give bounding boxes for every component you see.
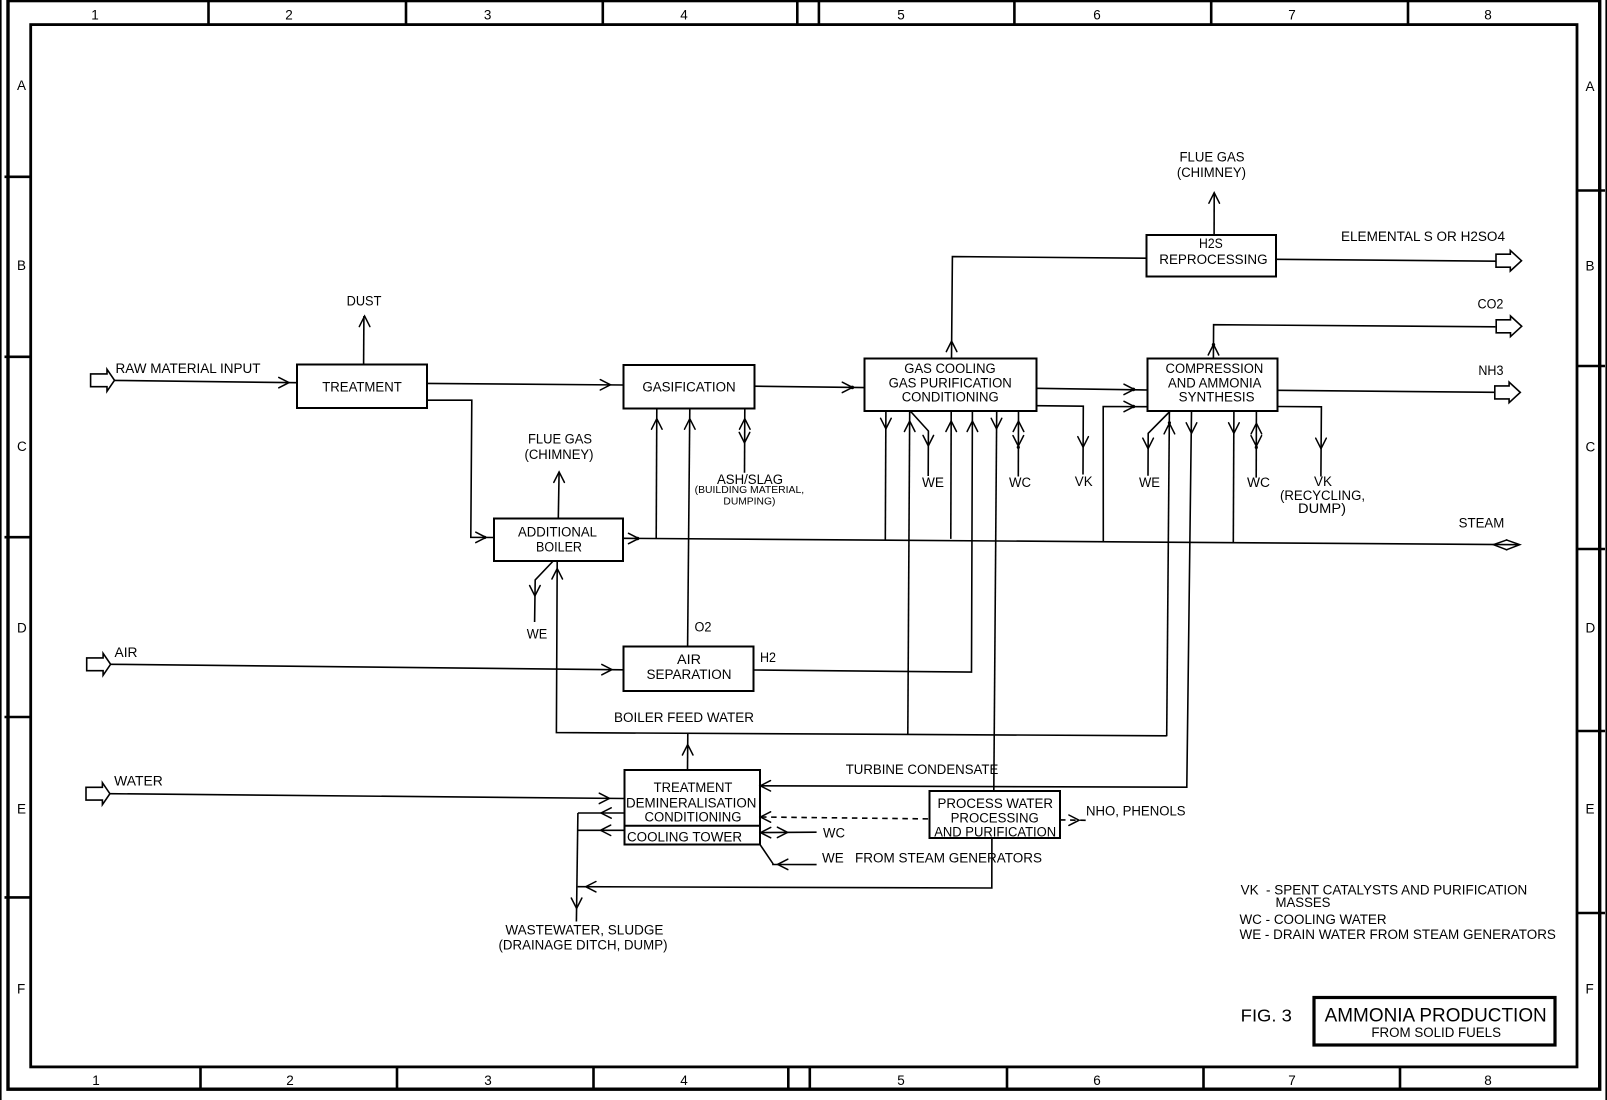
top band tick 1/2 [207, 2, 210, 24]
svg-text:WE: WE [1139, 475, 1160, 490]
box PROCESS WATER PROCESSING AND PURIFICATION [930, 791, 1061, 839]
svg-text:TREATMENT: TREATMENT [322, 379, 402, 394]
bottom band centre double tick [787, 1067, 790, 1089]
box H2S REPROCESSING [1147, 235, 1277, 277]
svg-text:F: F [1586, 981, 1594, 996]
svg-text:WASTEWATER, SLUDGE: WASTEWATER, SLUDGE [505, 923, 663, 938]
svg-text:F: F [17, 981, 25, 996]
wire COMPRESSION to NH3 output [1278, 390, 1495, 392]
box AIR SEPARATION [624, 647, 754, 692]
svg-text:AIR: AIR [115, 645, 138, 660]
svg-text:3: 3 [484, 1073, 492, 1088]
wire TREATMENT down to ADDITIONAL BOILER [427, 400, 494, 542]
svg-text:7: 7 [1288, 7, 1296, 22]
svg-text:WC: WC [1009, 475, 1031, 490]
svg-text:2: 2 [285, 7, 293, 22]
svg-text:5: 5 [897, 7, 905, 22]
svg-text:PROCESS WATER: PROCESS WATER [938, 796, 1054, 811]
wire COMPRESSION turbine condensate down to water treatment [760, 412, 1197, 792]
svg-text:(BUILDING MATERIAL,: (BUILDING MATERIAL, [695, 484, 805, 496]
right band tick D/E [1578, 730, 1605, 733]
wire WC exchange stub at cooling tower [760, 827, 817, 838]
input block arrow WATER [86, 774, 163, 805]
svg-text:TREATMENT: TREATMENT [654, 780, 733, 795]
svg-text:A: A [1586, 79, 1595, 94]
svg-text:1: 1 [92, 1073, 100, 1088]
svg-text:WATER: WATER [114, 774, 163, 789]
svg-text:WC: WC [1247, 475, 1270, 490]
wire GAS COOLING down to steam line [881, 411, 892, 540]
svg-text:WE: WE [527, 627, 548, 642]
svg-text:TURBINE CONDENSATE: TURBINE CONDENSATE [846, 762, 999, 777]
wire WE drain stub under COMPRESSION [1143, 412, 1170, 476]
wire COMPRESSION right down to VK stub [1278, 407, 1327, 477]
wire cooling tower left outlet [578, 825, 625, 835]
left band tick A/B [5, 176, 30, 179]
label VK (RECYCLING, DUMP) [1280, 474, 1365, 516]
svg-text:5: 5 [897, 1073, 905, 1088]
svg-text:NH3: NH3 [1478, 363, 1503, 378]
svg-text:SEPARATION: SEPARATION [647, 667, 732, 682]
page edge trim line right [1605, 0, 1607, 1100]
svg-text:AIR: AIR [677, 652, 701, 667]
svg-text:H2: H2 [760, 650, 776, 665]
svg-text:GAS COOLING: GAS COOLING [904, 361, 995, 376]
wire H2S REPROCESSING up to flue gas chimney [1209, 193, 1220, 235]
svg-text:FLUE GAS: FLUE GAS [528, 432, 592, 447]
input block arrow RAW MATERIAL INPUT [91, 361, 261, 391]
svg-text:B: B [1586, 259, 1595, 274]
svg-text:4: 4 [680, 7, 688, 22]
svg-text:WE: WE [922, 475, 944, 490]
svg-text:GASIFICATION: GASIFICATION [642, 379, 735, 394]
right band tick C/D [1578, 548, 1605, 551]
box GAS COOLING / GAS PURIFICATION / CONDITIONING [865, 359, 1037, 412]
title block AMMONIA PRODUCTION FROM SOLID FUELS [1314, 998, 1555, 1046]
wire TREATMENT to GASIFICATION [427, 380, 624, 390]
left band tick B/C [5, 355, 30, 358]
svg-text:AMMONIA PRODUCTION: AMMONIA PRODUCTION [1325, 1006, 1547, 1027]
svg-text:1: 1 [91, 7, 99, 22]
svg-text:D: D [1586, 620, 1596, 635]
wire water treatment upper left outlet [578, 808, 625, 818]
wire WC double arrow stub under GAS COOLING [1013, 411, 1024, 477]
svg-text:8: 8 [1484, 1073, 1492, 1088]
bottom band tick 6/7 [1202, 1067, 1205, 1089]
svg-text:DUMP): DUMP) [1298, 501, 1346, 516]
svg-text:E: E [17, 801, 26, 816]
svg-text:O2: O2 [695, 620, 712, 635]
box GASIFICATION [624, 365, 755, 409]
wire GASIFICATION to GAS COOLING [755, 382, 865, 392]
steam line double arrowhead [1493, 540, 1519, 550]
box TREATMENT DEMINERALISATION CONDITIONING / COOLING TOWER [625, 770, 761, 845]
svg-text:VK: VK [1314, 474, 1332, 489]
wire O2 from AIR SEPARATION up into GASIFICATION [685, 409, 696, 647]
box TREATMENT [297, 365, 427, 409]
wire WATER to water treatment [110, 793, 625, 803]
wire steam line up into GAS COOLING [946, 411, 957, 539]
wire WE drain stub under ADDITIONAL BOILER [530, 561, 554, 622]
svg-text:DEMINERALISATION: DEMINERALISATION [626, 795, 756, 810]
svg-text:E: E [1586, 801, 1595, 816]
svg-text:6: 6 [1093, 7, 1101, 22]
wire AIR to AIR SEPARATION [111, 664, 624, 675]
svg-text:4: 4 [680, 1073, 688, 1088]
bottom band tick 7/8 [1399, 1067, 1402, 1089]
svg-text:CO2: CO2 [1478, 297, 1504, 312]
svg-text:2: 2 [286, 1073, 294, 1088]
wire raw material input to TREATMENT [115, 377, 298, 387]
wire COMPRESSION up to CO2 output [1208, 325, 1495, 359]
svg-text:ADDITIONAL: ADDITIONAL [518, 525, 597, 540]
svg-text:(CHIMNEY): (CHIMNEY) [1177, 165, 1246, 180]
input block arrow AIR [87, 645, 138, 675]
svg-text:WE - DRAIN WATER FROM STEAM GE: WE - DRAIN WATER FROM STEAM GENERATORS [1240, 927, 1556, 942]
wire WE from steam generators into water treatment [760, 845, 816, 870]
svg-text:COMPRESSION: COMPRESSION [1166, 361, 1264, 376]
output block arrow elemental S [1496, 250, 1522, 271]
svg-text:CONDITIONING: CONDITIONING [645, 809, 742, 824]
wire H2S REPROCESSING to elemental S output [1276, 259, 1496, 261]
wire GAS COOLING right to VK stub [1037, 406, 1089, 475]
svg-text:ELEMENTAL S OR H2SO4: ELEMENTAL S OR H2SO4 [1341, 229, 1505, 244]
svg-text:DUST: DUST [347, 293, 382, 308]
svg-text:FROM SOLID FUELS: FROM SOLID FUELS [1371, 1025, 1501, 1040]
top band centre double tick [796, 2, 799, 24]
svg-text:H2S: H2S [1199, 236, 1223, 251]
output block arrow NH3 [1495, 382, 1521, 403]
top band tick 5/6 [1013, 2, 1016, 24]
svg-text:BOILER: BOILER [536, 540, 582, 555]
svg-text:6: 6 [1093, 1073, 1101, 1088]
svg-text:8: 8 [1484, 7, 1492, 22]
svg-text:3: 3 [484, 7, 492, 22]
svg-text:REPROCESSING: REPROCESSING [1159, 252, 1267, 267]
dashed wire PROCESS WATER to NHO, PHENOLS [1060, 815, 1086, 825]
wire water treatment up to boiler feed water line [682, 733, 693, 770]
svg-text:GAS PURIFICATION: GAS PURIFICATION [889, 375, 1012, 390]
label ASH/SLAG (BUILDING MATERIAL, DUMPING) [695, 472, 805, 508]
right band tick A/B [1578, 189, 1605, 192]
box COMPRESSION AND AMMONIA SYNTHESIS [1148, 359, 1278, 412]
svg-text:DUMPING): DUMPING) [723, 496, 775, 508]
svg-text:CONDITIONING: CONDITIONING [902, 390, 999, 405]
wire GAS COOLING down to PROCESS WATER [991, 411, 1002, 791]
svg-text:FIG. 3: FIG. 3 [1241, 1006, 1292, 1026]
wire boiler feed water up into COMPRESSION [1164, 412, 1175, 737]
svg-text:FLUE GAS: FLUE GAS [1180, 149, 1245, 164]
svg-text:7: 7 [1288, 1073, 1296, 1088]
svg-text:AND PURIFICATION: AND PURIFICATION [934, 824, 1056, 839]
svg-text:C: C [1586, 439, 1596, 454]
wire boiler feed water up into GAS COOLING [904, 411, 915, 735]
svg-text:D: D [17, 620, 27, 635]
wire H2 from AIR SEPARATION up into GAS COOLING [754, 411, 978, 672]
wire GAS COOLING up to H2S REPROCESSING [946, 257, 1146, 359]
left band tick D/E [5, 716, 30, 719]
wire GAS COOLING to COMPRESSION upper [1037, 384, 1148, 394]
label WASTEWATER, SLUDGE (DRAINAGE DITCH, DUMP) [499, 923, 668, 953]
wire steam line up into GASIFICATION [652, 409, 663, 539]
svg-text:RAW MATERIAL INPUT: RAW MATERIAL INPUT [116, 361, 261, 376]
svg-text:MASSES: MASSES [1276, 895, 1331, 910]
svg-text:SYNTHESIS: SYNTHESIS [1179, 390, 1255, 405]
svg-text:(CHIMNEY): (CHIMNEY) [525, 447, 594, 462]
svg-text:B: B [17, 258, 26, 273]
right band tick E/F [1578, 912, 1605, 915]
wire GASIFICATION ash/slag double arrow [739, 409, 750, 473]
wire wastewater vertical with arrow [571, 813, 582, 922]
top band tick 6/7 [1210, 2, 1213, 24]
top band tick 3/4 [601, 2, 604, 24]
bottom band tick 3/4 [592, 1067, 595, 1089]
svg-text:NHO, PHENOLS: NHO, PHENOLS [1086, 804, 1186, 819]
wire steam line up and into COMPRESSION lower [1103, 401, 1147, 541]
top band tick 7/8 [1407, 2, 1410, 24]
svg-text:AND AMMONIA: AND AMMONIA [1168, 375, 1261, 390]
wire TREATMENT up to DUST [359, 316, 370, 365]
bottom band tick 2/3 [396, 1067, 399, 1089]
svg-text:C: C [17, 439, 27, 454]
top band tick 2/3 [405, 2, 408, 24]
wire main STEAM line [623, 533, 1519, 544]
label FLUE GAS (CHIMNEY) left [525, 432, 594, 463]
left band tick E/F [5, 896, 30, 899]
svg-text:WC - COOLING WATER: WC - COOLING WATER [1240, 912, 1387, 927]
wire WC double arrow stub under COMPRESSION [1251, 412, 1262, 478]
wire PROCESS WATER bottom to wastewater line [578, 838, 992, 892]
svg-text:VK: VK [1075, 474, 1093, 489]
wire ADDITIONAL BOILER up to flue gas chimney [554, 472, 565, 519]
dashed wire PROCESS WATER to water treatment [760, 812, 929, 822]
svg-text:COOLING TOWER: COOLING TOWER [627, 830, 742, 845]
right band tick B/C [1578, 365, 1605, 368]
svg-text:A: A [17, 78, 26, 93]
page edge trim line left [0, 0, 2, 1100]
svg-text:BOILER FEED WATER: BOILER FEED WATER [614, 710, 754, 725]
svg-text:WE FROM STEAM GENERATORS: WE FROM STEAM GENERATORS [822, 851, 1042, 866]
wire WE drain stub under GAS COOLING [911, 412, 934, 477]
svg-text:WC: WC [823, 826, 845, 841]
output block arrow CO2 [1496, 316, 1522, 337]
bottom band tick 5/6 [1006, 1067, 1009, 1089]
svg-text:(DRAINAGE DITCH, DUMP): (DRAINAGE DITCH, DUMP) [499, 938, 668, 953]
bottom band tick 1/2 [199, 1067, 202, 1089]
legend VK WC WE [1240, 882, 1556, 942]
label FLUE GAS (CHIMNEY) right [1177, 149, 1246, 180]
svg-text:STEAM: STEAM [1459, 516, 1505, 531]
svg-text:PROCESSING: PROCESSING [951, 810, 1039, 825]
wire boiler feed water line with riser into ADDITIONAL BOILER [552, 561, 1167, 736]
wire COMPRESSION down to steam line [1229, 412, 1240, 543]
left band tick C/D [5, 536, 30, 539]
box ADDITIONAL BOILER [494, 519, 623, 562]
